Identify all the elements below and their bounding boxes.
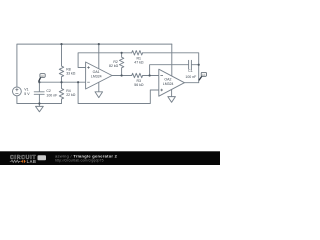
junction Vref node / branch to OA2 + [77,81,79,83]
resistor R2 [119,53,123,76]
svg-text:LM324: LM324 [91,74,102,78]
footer bar [0,151,220,165]
wire C1 right plate to OA2 output [191,64,198,66]
junction OA2 output / C1 [198,64,200,66]
svg-text:LM324: LM324 [163,82,174,86]
ground at V1 / C2 column [36,104,44,112]
junction node A / R2 top [121,52,123,54]
wire OA1 V+ pin [98,44,100,69]
resistor R8 [59,44,63,82]
wire Vref row [39,81,85,83]
ground under OA1 [95,92,103,98]
wire output row right of R3 to OA2 - input [143,75,159,77]
junction 5V rail / R8 [60,43,62,45]
capacitor C2 [34,82,44,103]
svg-text:82 kΩ: 82 kΩ [109,64,119,68]
junction Vref node / R8 R4 divider [60,81,62,83]
wire bottom ground rail [17,96,62,104]
footer logo capacitor [21,160,26,163]
svg-text:V1: V1 [24,87,28,91]
wire Vref branch to OA2 + input [78,82,159,103]
footer logo resistor zigzag [10,160,21,162]
wire top 5V rail [17,44,172,87]
svg-text:aswing / Triangle generator 2: aswing / Triangle generator 2 [55,153,118,158]
svg-text:out: out [202,73,205,76]
resistor R4 [59,82,63,103]
op-amp OA1 [86,62,112,89]
ground under OA2 [168,97,176,103]
svg-text:5 V: 5 V [24,92,30,96]
probe flag 2 [199,72,207,80]
junction Vref node / C2 / probe [38,81,40,83]
svg-text:22 kΩ: 22 kΩ [66,93,76,97]
op-amp OA2 [159,69,185,96]
resistor R3 [132,73,143,77]
svg-text:out: out [41,75,44,78]
svg-text:LAB: LAB [27,159,37,164]
svg-text:33 kΩ: 33 kΩ [66,72,76,76]
capacitor C1 [189,60,192,69]
junction OA1 output / R2 bottom [121,74,123,76]
wire OA1 output row [112,75,132,77]
svg-text:56 kΩ: 56 kΩ [134,83,144,87]
wire OA2 V+ pin [171,44,173,76]
wire node A right of R1 down to OA2 output [143,53,199,83]
svg-text:47 kΩ: 47 kΩ [134,61,144,65]
junction OA2 inverting input / C1 branch [149,74,151,76]
wire node A to OA1 + input [78,53,132,68]
wire C1 integrator feedback row [150,65,189,76]
junction ground rail / C2 bottom [38,102,40,104]
op-amp OA1 V- pin [98,82,100,92]
svg-text:C1: C1 [188,69,193,73]
svg-text:100 nF: 100 nF [185,75,196,79]
OA2 input polarity marks [160,76,163,92]
op-amp OA2 V- pin [171,90,173,97]
resistor R1 [132,51,143,55]
OA1 input polarity marks [87,66,90,82]
V1 +/- marks [15,88,18,93]
probe flag 1 [39,74,46,82]
svg-text:100 nF: 100 nF [46,93,57,97]
svg-text:http://circuitlab.com/c/gqdp75: http://circuitlab.com/c/gqdp75 [55,159,104,163]
labels [24,56,196,97]
junction 5V rail / OA1 V+ [98,43,100,45]
voltage source V1 [13,87,22,96]
